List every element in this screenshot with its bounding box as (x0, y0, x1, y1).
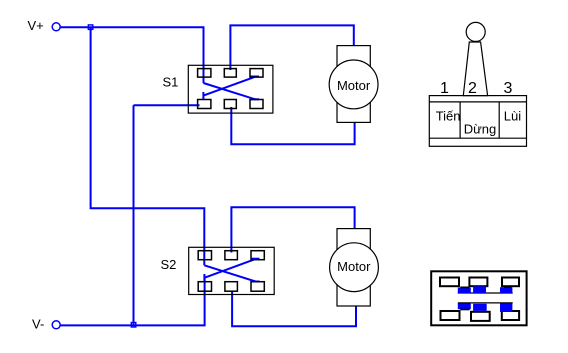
svg-text:Tiến: Tiến (436, 109, 461, 124)
svg-text:3: 3 (504, 80, 513, 97)
svg-text:S1: S1 (163, 75, 179, 90)
svg-text:V+: V+ (28, 18, 44, 33)
svg-text:2: 2 (468, 80, 477, 97)
svg-text:S2: S2 (161, 257, 177, 272)
svg-text:Dừng: Dừng (464, 122, 497, 137)
svg-text:1: 1 (440, 80, 449, 97)
svg-text:Lùi: Lùi (504, 109, 521, 124)
svg-text:V-: V- (32, 317, 44, 332)
svg-text:Motor: Motor (337, 259, 371, 274)
svg-text:Motor: Motor (337, 78, 371, 93)
